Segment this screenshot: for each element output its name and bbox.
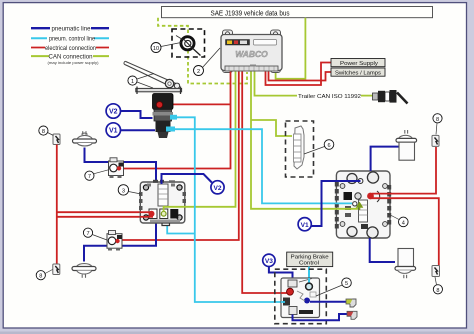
wire V2 to foot valve: [121, 111, 153, 118]
label 8 top left: [39, 126, 54, 135]
wire blue modulator 3 to lower valve 7 to bellows: [84, 223, 156, 262]
component 10 diagnostic connector dashed box: [172, 29, 205, 57]
wire red R3 ECU to parking valve 5: [242, 72, 286, 294]
op ECU WABCO component 2: [221, 30, 282, 73]
label 10: [151, 43, 181, 53]
label 7 lower: [83, 228, 107, 240]
wire diagnostic CAN dashed green from title box via component 10 to ECU: [158, 18, 247, 84]
modulator component 3: [139, 180, 186, 226]
wire blue modulator 4 to air chamber top right: [371, 147, 399, 171]
title box SAE J1939 vehicle data bus: [162, 7, 433, 18]
svg-text:V2: V2: [109, 109, 118, 116]
sensor 8 bottom left: [53, 264, 60, 275]
node V2 left: [106, 104, 120, 118]
port modulator 4 upper left: [358, 179, 363, 184]
wire blue V1 right to modulator 4: [311, 181, 361, 226]
wire green branch to connector 6: [251, 120, 292, 136]
svg-text:V1: V1: [301, 222, 309, 229]
svg-text:4: 4: [402, 220, 405, 226]
wire red ECU to power supply: [266, 63, 332, 86]
svg-text:Power Supply: Power Supply: [340, 61, 378, 67]
label 5: [316, 278, 351, 296]
label 1: [128, 74, 154, 89]
connector 2: [347, 311, 357, 319]
wire red sensor branch lower to modulator 3: [57, 216, 151, 218]
air bellows lower left: [72, 264, 96, 278]
wire blue V3 to parking valve: [269, 267, 293, 280]
wire green trailer CAN: [255, 72, 373, 96]
svg-text:Control: Control: [299, 261, 319, 267]
legend electrical connection: [31, 44, 109, 52]
wire red R3 end into valve 5: [281, 292, 287, 294]
svg-text:electrical connection: electrical connection: [45, 46, 96, 52]
wire blue parking valve bottom to connector 2: [293, 314, 348, 320]
label 8 bottom right: [433, 277, 442, 294]
svg-text:2: 2: [197, 69, 200, 75]
svg-text:V1: V1: [109, 128, 118, 135]
svg-text:SAE J1939 vehicle data bus: SAE J1939 vehicle data bus: [211, 10, 290, 17]
wire green G1 ECU to modulator 3: [164, 72, 236, 213]
foot brake valve pedal component 1: [124, 61, 182, 94]
label 8 top right: [433, 114, 442, 135]
sensor 8 top left: [53, 134, 60, 145]
svg-text:1: 1: [131, 79, 134, 85]
wire blue bellows to valve 7 to modulator 3: [85, 148, 157, 185]
svg-text:(may include power supply): (may include power supply): [48, 60, 100, 65]
wire cyan parking control end into valve 5: [308, 278, 310, 286]
wire green G1 end into modulator 3 port: [164, 207, 186, 212]
svg-text:8: 8: [436, 117, 439, 123]
wire V1 to foot valve: [121, 129, 156, 131]
wire blue parking valve to connector 1: [310, 301, 346, 303]
node V2 right: [211, 181, 224, 194]
svg-text:3: 3: [122, 188, 125, 194]
node V3: [263, 254, 275, 266]
wire red R2 ECU to lower valve 7: [118, 72, 239, 241]
wire cyan parking brake control to valve 5: [308, 267, 310, 286]
wire J1939 CAN green from title box to ECU: [276, 18, 306, 79]
wire red left sensors vertical: [56, 145, 58, 265]
label 6: [304, 140, 334, 154]
wire red modulator 4 to sensor top right: [372, 147, 436, 194]
trailer CAN connector plug: [373, 90, 408, 104]
legend pneumatic line: [31, 25, 109, 33]
valve 7 lower: [107, 231, 122, 251]
foot brake valve body: [153, 94, 178, 139]
modulator component 4: [335, 171, 391, 238]
green arrow port modulator 4: [357, 203, 362, 210]
air chamber bottom right: [395, 249, 416, 279]
wire red sensor branch to modulator 3: [57, 211, 151, 213]
port valve 5 red: [287, 288, 294, 295]
svg-text:8: 8: [436, 288, 439, 294]
valve 7 upper: [109, 158, 124, 178]
label 7 upper: [85, 170, 109, 180]
svg-text:Parking Brake: Parking Brake: [291, 254, 329, 260]
parking brake control box: [287, 252, 333, 267]
svg-text:8: 8: [42, 129, 45, 135]
svg-text:5: 5: [345, 281, 348, 287]
svg-text:V2: V2: [213, 185, 221, 192]
svg-text:6: 6: [327, 143, 330, 149]
wire red ends into modulator 3 port: [140, 211, 155, 217]
switches lamps box: [331, 68, 385, 77]
label 4: [388, 214, 409, 227]
connector 1: [346, 299, 356, 307]
sensor 8 top right: [432, 135, 439, 146]
svg-text:WABCO: WABCO: [235, 49, 268, 59]
svg-text:10: 10: [153, 46, 159, 52]
wire cyan 1 foot valve to parking valve: [170, 117, 285, 302]
node V1 left: [106, 123, 120, 137]
svg-text:pneum. control line: pneum. control line: [49, 37, 96, 43]
svg-text:7: 7: [86, 231, 89, 237]
svg-text:V3: V3: [265, 258, 273, 265]
svg-text:pneumatic line: pneumatic line: [52, 27, 92, 33]
svg-text:7: 7: [88, 174, 91, 180]
parking valve 5 dashed box: [275, 269, 327, 324]
port valve 5 cyan top: [306, 283, 313, 290]
air chamber top right: [396, 130, 417, 160]
wire blue modulator 4 to air chamber bottom: [370, 238, 395, 262]
legend CAN connection: [31, 52, 109, 64]
svg-text:Switches / Lamps: Switches / Lamps: [335, 71, 381, 77]
wire green G2 end into modulator 4: [335, 208, 358, 210]
sensor 8 bottom right: [432, 266, 440, 277]
svg-text:8: 8: [39, 274, 42, 280]
connector component 6 dashed box: [286, 121, 314, 177]
wire cyan 1 end into valve 5: [281, 301, 285, 303]
node V1 right: [298, 218, 311, 231]
wire cyan 2 end into modulator 4: [335, 202, 352, 204]
wire red modulator 4 to sensor bottom right: [372, 198, 439, 265]
wire cyan 2 foot valve to modulator 4: [170, 129, 346, 203]
wire green G2 ECU to modulator 4: [251, 72, 357, 209]
wire cyan stub modulator 3 to cyan 1: [167, 225, 195, 234]
parking valve 5 body: [281, 278, 320, 318]
legend pneum. control line: [31, 35, 109, 43]
label 3: [118, 185, 141, 195]
power supply box: [331, 59, 385, 68]
wire blue V1 end into modulator 4: [335, 180, 361, 182]
wire red ECU to switches lamps: [269, 72, 332, 81]
wire blue modulator 3 to V2 right: [162, 174, 212, 184]
wire red R1 ECU to foot valve and upper valve 7: [120, 72, 231, 169]
svg-text:Trailer CAN ISO 11992: Trailer CAN ISO 11992: [298, 94, 361, 100]
label 2: [194, 48, 221, 76]
connector 6 symbol: [294, 126, 305, 169]
air bellows upper left: [73, 131, 97, 146]
label 8 bottom left: [36, 270, 52, 280]
